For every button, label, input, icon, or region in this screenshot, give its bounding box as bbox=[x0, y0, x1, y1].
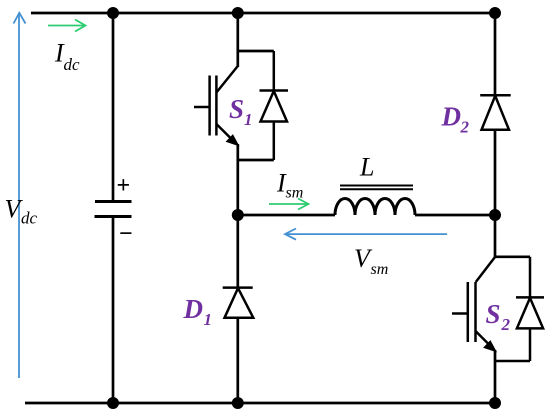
label Ism bbox=[276, 169, 303, 202]
wire middle bus bbox=[238, 214, 495, 217]
svg-text:D: D bbox=[441, 102, 462, 132]
svg-text:dc: dc bbox=[64, 55, 81, 74]
arrow Vdc (blue, up) bbox=[14, 13, 26, 378]
inductor L coils bbox=[335, 199, 415, 216]
svg-text:1: 1 bbox=[244, 110, 253, 129]
capacitor C bbox=[95, 202, 132, 217]
igbt S1 emitter arrowhead bbox=[227, 135, 239, 146]
junction node mid-S2 bbox=[489, 209, 501, 221]
svg-text:dc: dc bbox=[21, 209, 38, 228]
junction node mid-S1 bbox=[232, 209, 244, 221]
junction node top-cap bbox=[107, 7, 119, 19]
label Idc bbox=[54, 39, 80, 75]
svg-text:−: − bbox=[119, 221, 133, 247]
S2 collector wire bbox=[495, 215, 530, 257]
label S2 bbox=[486, 299, 511, 334]
capacitor plus label bbox=[117, 173, 131, 199]
S2 emitter wire bbox=[494, 350, 497, 403]
junction node bottom-D1 bbox=[232, 397, 244, 409]
S1 antiparallel diode bbox=[260, 51, 289, 160]
svg-text:+: + bbox=[117, 173, 131, 199]
igbt S2 bbox=[452, 257, 495, 345]
svg-text:S: S bbox=[229, 94, 244, 124]
igbt S2 emitter arrowhead bbox=[484, 341, 496, 352]
junction node bottom-cap bbox=[107, 397, 119, 409]
diode D2 bbox=[480, 95, 511, 130]
junction node top-S1 bbox=[232, 7, 244, 19]
svg-text:sm: sm bbox=[286, 185, 304, 202]
S2 antiparallel diode bbox=[495, 257, 544, 361]
label S1 bbox=[229, 94, 253, 129]
svg-text:L: L bbox=[359, 153, 374, 182]
svg-text:1: 1 bbox=[204, 310, 213, 329]
S1 emitter wire bbox=[238, 144, 274, 215]
arrow Idc (green, right) bbox=[48, 20, 86, 32]
arrow Vsm (blue, left) bbox=[285, 229, 447, 240]
svg-text:sm: sm bbox=[371, 261, 389, 278]
capacitor minus label bbox=[119, 221, 133, 247]
igbt S1 bbox=[194, 66, 238, 140]
svg-text:2: 2 bbox=[460, 118, 470, 137]
label D2 bbox=[441, 102, 470, 137]
svg-text:S: S bbox=[486, 299, 501, 329]
diode D1 branch wire bbox=[236, 215, 239, 403]
svg-text:2: 2 bbox=[501, 315, 511, 334]
label L bbox=[359, 153, 374, 182]
inductor L core bars bbox=[340, 186, 413, 190]
junction node bottom-S2 bbox=[489, 397, 501, 409]
wire capacitor branch bbox=[112, 13, 115, 403]
label Vdc bbox=[5, 195, 38, 228]
diode D1 bbox=[223, 288, 254, 318]
label D1 bbox=[183, 294, 213, 329]
label Vsm bbox=[354, 244, 388, 278]
wire top bus bbox=[31, 12, 495, 15]
svg-text:D: D bbox=[183, 294, 204, 324]
wire bottom bus bbox=[25, 402, 495, 405]
arrow Ism (green, right) bbox=[269, 199, 309, 210]
diode D2 branch wire bbox=[494, 13, 497, 215]
S1 collector wire bbox=[238, 13, 274, 67]
junction node top-D2 bbox=[489, 7, 501, 19]
